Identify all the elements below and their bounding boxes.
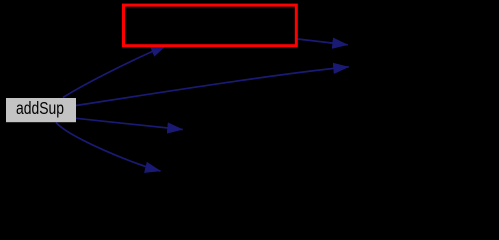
wire edge addSup->node C [76, 67, 349, 106]
node red truncated box [124, 5, 297, 46]
wire edge red node->node B [298, 39, 348, 45]
wire edge addSup->node E [56, 123, 161, 172]
node addSup [6, 98, 76, 122]
wire edge addSup->red node [63, 45, 166, 97]
svg-text:addSup: addSup [16, 98, 64, 118]
wire edge addSup->node D [76, 118, 183, 129]
